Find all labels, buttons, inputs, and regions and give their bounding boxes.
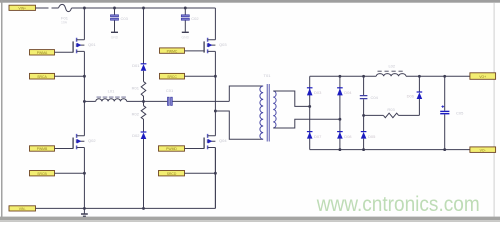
svg-text:D05: D05 <box>368 134 376 139</box>
svg-text:SRCD: SRCD <box>167 172 177 176</box>
svg-text:L02: L02 <box>388 64 395 69</box>
wire Q2 source to bottom rail <box>83 148 85 209</box>
svg-text:Q02: Q02 <box>88 138 96 143</box>
transistor Q03 <box>204 38 227 53</box>
capacitor C04 <box>360 76 379 115</box>
capacitor C05 (output, polarized) <box>440 76 464 149</box>
svg-text:R02: R02 <box>132 112 140 117</box>
transistor Q01 <box>73 38 96 53</box>
svg-text:D01: D01 <box>132 63 140 68</box>
svg-text:D03: D03 <box>314 90 322 95</box>
svg-text:GND: GND <box>182 36 190 40</box>
svg-text:SRCC: SRCC <box>167 75 177 79</box>
svg-text:C01: C01 <box>166 88 174 93</box>
svg-text:D08: D08 <box>344 134 352 139</box>
diode D03 <box>307 88 322 96</box>
wire rectifier top rail <box>310 75 470 77</box>
label box Q1 source <box>30 73 85 79</box>
svg-text:Q04: Q04 <box>219 138 227 143</box>
node rails junctions <box>338 75 446 151</box>
resistor R02 <box>132 101 146 131</box>
resistor R03 (snubber) <box>364 107 420 118</box>
node left leg taps <box>83 75 86 103</box>
label box Q3 source <box>160 73 216 79</box>
port VIN- (bottom left) <box>9 206 36 211</box>
svg-text:C02: C02 <box>191 16 199 21</box>
label box Q4 source <box>159 171 216 176</box>
port VOUT+ <box>470 73 496 80</box>
wire rectifier bottom rail <box>310 149 470 151</box>
svg-text:Q03: Q03 <box>219 42 227 47</box>
port VOUT- <box>470 147 496 153</box>
inductor L02 <box>376 64 406 77</box>
label box Q2 gate <box>30 146 74 151</box>
inductor L01 <box>84 89 143 102</box>
port VIN+ <box>9 5 36 10</box>
wire bridge right leg <box>339 76 341 149</box>
wire primary bottom lead <box>215 111 263 139</box>
transistor Q02 <box>73 134 96 149</box>
node top rail junctions <box>83 7 187 10</box>
node right leg taps <box>214 75 217 113</box>
label box Q4 gate <box>159 146 205 151</box>
node clamp mid <box>142 100 145 103</box>
svg-text:VO+: VO+ <box>479 75 486 79</box>
wire Q3 source to Q4 drain <box>214 51 216 135</box>
wire secondary bottom lead <box>273 119 340 128</box>
ground symbol <box>81 208 88 216</box>
wire Q1 and Q3 drain drops <box>84 8 215 40</box>
capacitor C02 <box>181 8 199 32</box>
capacitor C03 <box>111 8 129 32</box>
svg-text:C04: C04 <box>371 95 379 100</box>
svg-text:PWMC: PWMC <box>167 49 178 53</box>
node secondary bottom to bridge <box>338 118 341 121</box>
node Q2 source label tap <box>83 172 86 175</box>
wire Q1 source to Q2 drain <box>83 51 85 135</box>
svg-text:Q01: Q01 <box>88 42 96 47</box>
transistor Q04 <box>204 134 227 149</box>
diode D06 (snubber) <box>407 76 423 115</box>
svg-text:VIN+: VIN+ <box>18 7 26 11</box>
svg-text:D02: D02 <box>132 133 140 138</box>
node snubber junction <box>362 114 365 117</box>
svg-text:VIN-: VIN- <box>19 207 26 211</box>
svg-text:T01: T01 <box>264 73 272 78</box>
svg-text:SRCB: SRCB <box>37 172 47 176</box>
svg-text:D07: D07 <box>314 134 322 139</box>
diode D08 (bridge lower-right) <box>337 132 352 139</box>
diode D01 <box>132 8 146 71</box>
svg-text:D06: D06 <box>407 94 415 99</box>
wire bridge left leg <box>309 76 311 149</box>
ground under C03 <box>111 32 119 39</box>
diode D07 (bridge lower-left) <box>307 132 322 139</box>
svg-text:C03: C03 <box>121 16 129 21</box>
svg-text:D04: D04 <box>344 90 352 95</box>
fuse F01 <box>59 4 72 11</box>
svg-text:R01: R01 <box>132 85 140 90</box>
wire Q4 source to bottom rail <box>214 148 216 209</box>
svg-text:L01: L01 <box>108 89 115 94</box>
wire bottom rail <box>36 148 216 209</box>
capacitor C01 (series) <box>144 88 230 105</box>
label box Q3 gate <box>160 48 205 53</box>
label box Q2 source <box>30 171 85 176</box>
diode D05 <box>361 115 376 149</box>
svg-text:10A: 10A <box>61 20 68 24</box>
diode D04 <box>337 88 352 96</box>
svg-text:PWMA: PWMA <box>37 51 48 55</box>
svg-text:SRCA: SRCA <box>37 75 47 79</box>
node secondary top to bridge <box>308 105 311 108</box>
ground under C02 <box>182 32 190 39</box>
diode D02 <box>132 132 146 208</box>
svg-text:R03: R03 <box>387 107 395 112</box>
wire secondary top lead <box>273 91 309 106</box>
svg-text:VO-: VO- <box>480 148 486 152</box>
svg-text:PWMB: PWMB <box>37 147 48 151</box>
svg-text:GND: GND <box>111 36 119 40</box>
wire top rail <box>36 7 216 9</box>
wire primary top lead <box>229 86 263 101</box>
svg-text:PWMD: PWMD <box>166 147 177 151</box>
node Q4 source label tap <box>214 172 217 175</box>
label box Q1 gate <box>30 50 74 55</box>
svg-text:www.cntronics.com: www.cntronics.com <box>316 193 480 216</box>
resistor R01 <box>132 71 146 102</box>
svg-text:C05: C05 <box>456 111 464 116</box>
node bottom rail junctions <box>83 207 145 210</box>
transformer T01 <box>260 73 276 142</box>
